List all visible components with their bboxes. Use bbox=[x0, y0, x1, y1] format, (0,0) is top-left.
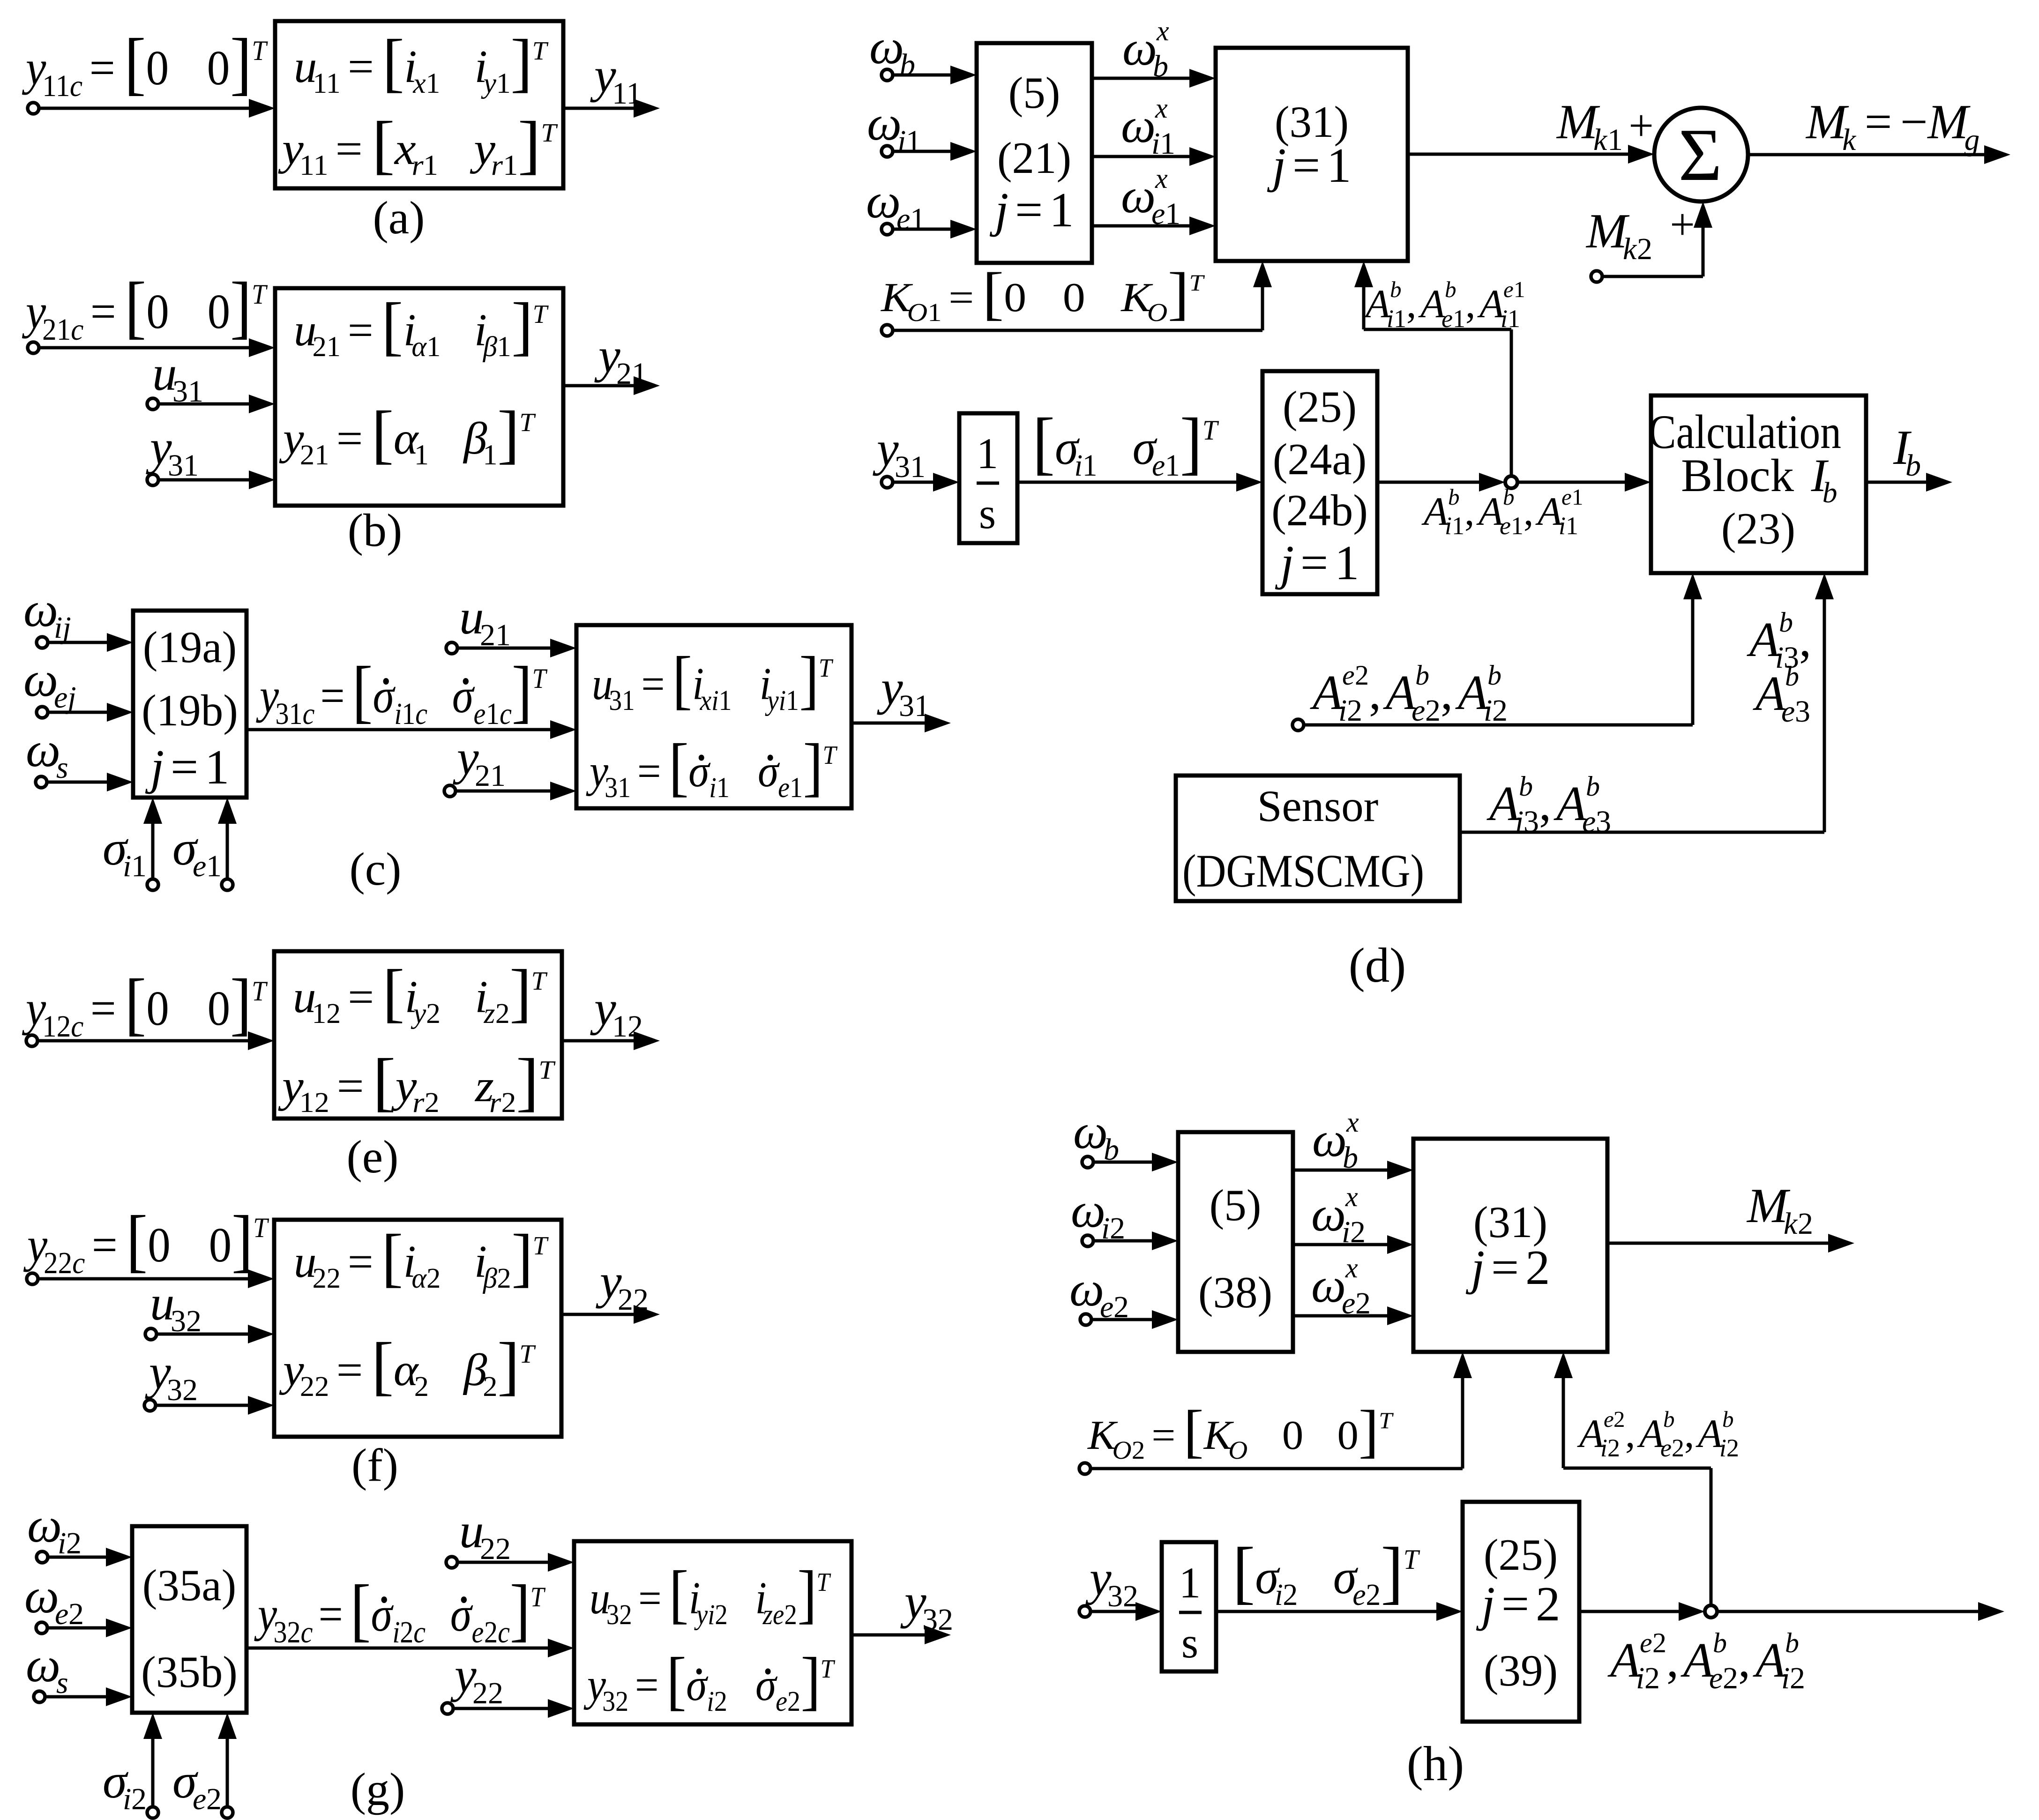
svg-text:e: e bbox=[55, 1597, 68, 1631]
caption (c) bbox=[350, 843, 402, 895]
svg-text:,: , bbox=[1625, 1411, 1636, 1456]
svg-text:1: 1 bbox=[1165, 448, 1180, 483]
wire y32 input bbox=[156, 1396, 274, 1415]
block (a) line2 y11 bbox=[278, 108, 558, 181]
svg-text:i: i bbox=[392, 1616, 400, 1649]
svg-text:11: 11 bbox=[313, 67, 340, 99]
svg-text:(d): (d) bbox=[1349, 938, 1406, 992]
label A e3 part2 bbox=[1753, 661, 1810, 729]
svg-text:12: 12 bbox=[312, 998, 341, 1029]
svg-text:1: 1 bbox=[1452, 512, 1464, 540]
terminal sigma i2 bbox=[147, 1807, 158, 1818]
svg-text:2: 2 bbox=[484, 1616, 498, 1649]
label A i1 e1 top bbox=[1363, 276, 1525, 333]
block (c) text 19a bbox=[143, 622, 237, 672]
terminal we2 h bbox=[1080, 1314, 1091, 1325]
block (d) text 25 bbox=[1283, 382, 1357, 432]
wire wej input bbox=[48, 703, 133, 722]
label wi2 bbox=[27, 1498, 82, 1560]
terminal y31 input b bbox=[147, 474, 158, 485]
svg-text:σ: σ bbox=[686, 1660, 709, 1710]
wire sensor out bbox=[1460, 831, 1824, 834]
svg-text:=: = bbox=[348, 41, 374, 92]
integrator bar bbox=[977, 482, 999, 485]
svg-text:k: k bbox=[1623, 232, 1637, 266]
svg-text:i: i bbox=[394, 697, 402, 731]
svg-text:[: [ bbox=[1232, 1533, 1255, 1611]
svg-text:=: = bbox=[336, 413, 363, 464]
svg-text:c: c bbox=[301, 1616, 313, 1649]
wire y31 output bbox=[851, 714, 951, 732]
svg-text:(19b): (19b) bbox=[142, 686, 238, 735]
svg-text:31: 31 bbox=[168, 448, 199, 483]
svg-text:i: i bbox=[1484, 694, 1492, 728]
svg-text:r: r bbox=[412, 1086, 425, 1118]
svg-text:,: , bbox=[1464, 489, 1475, 534]
svg-text:32: 32 bbox=[167, 1373, 198, 1407]
svg-text:k: k bbox=[1842, 123, 1857, 157]
caption (b) bbox=[348, 504, 403, 556]
svg-text:1: 1 bbox=[1049, 182, 1074, 237]
terminal sigma e1 bbox=[222, 879, 233, 890]
wire Mk2 out bbox=[1607, 1234, 1854, 1253]
integrator 1 h bbox=[1179, 1559, 1201, 1607]
wire y22 output bbox=[561, 1305, 660, 1324]
svg-text:2: 2 bbox=[1525, 1240, 1550, 1295]
label y31 in bbox=[146, 420, 199, 483]
wire A2 up bbox=[1683, 573, 1702, 725]
wire y32c bbox=[246, 1639, 574, 1657]
label u31 bbox=[152, 346, 203, 409]
svg-text:=: = bbox=[1300, 535, 1328, 590]
label Mk2 out bbox=[1746, 1178, 1813, 1241]
label A i3 part1 bbox=[1747, 607, 1811, 675]
svg-text:2: 2 bbox=[715, 1598, 727, 1630]
integrator block bbox=[959, 413, 1017, 543]
label ws bbox=[26, 722, 68, 785]
wire KO2 h bbox=[1090, 1467, 1463, 1470]
svg-text:ω: ω bbox=[1069, 1261, 1104, 1316]
block (a) controller bbox=[275, 21, 563, 188]
svg-text:i: i bbox=[1151, 127, 1160, 161]
block (b) controller bbox=[275, 288, 563, 506]
label Mk=-Mg bbox=[1805, 95, 1979, 157]
svg-text:e: e bbox=[1500, 512, 1511, 540]
svg-text:O: O bbox=[1147, 298, 1167, 327]
svg-text:Sensor: Sensor bbox=[1257, 781, 1379, 831]
svg-text:[: [ bbox=[382, 957, 404, 1029]
svg-text:2: 2 bbox=[495, 998, 510, 1029]
terminal u21 in bbox=[446, 642, 457, 654]
wire A vert bbox=[1510, 329, 1513, 482]
svg-text:(35a): (35a) bbox=[142, 1560, 236, 1610]
svg-text:i: i bbox=[1387, 305, 1394, 333]
svg-text:31: 31 bbox=[605, 772, 631, 804]
wire A horiz bbox=[1364, 328, 1511, 331]
label wbx bbox=[1122, 15, 1169, 83]
svg-text:ej: ej bbox=[54, 680, 76, 715]
svg-text:(19a): (19a) bbox=[143, 622, 237, 672]
svg-text:T: T bbox=[1202, 415, 1219, 446]
svg-text:(24b): (24b) bbox=[1271, 485, 1368, 535]
integrator block h bbox=[1162, 1542, 1216, 1671]
svg-text:2: 2 bbox=[1652, 1627, 1666, 1658]
block (c) text 19b bbox=[142, 686, 238, 735]
svg-text:T: T bbox=[531, 967, 548, 996]
svg-text:b: b bbox=[1487, 660, 1501, 691]
svg-text:r: r bbox=[489, 1086, 501, 1118]
svg-text:r: r bbox=[412, 149, 424, 181]
svg-text:c: c bbox=[303, 697, 315, 731]
wire y22 input g bbox=[453, 1699, 574, 1718]
label Ib bbox=[1893, 420, 1921, 483]
svg-text:0: 0 bbox=[208, 284, 231, 339]
svg-text:1: 1 bbox=[717, 772, 730, 804]
svg-text:=: = bbox=[949, 275, 974, 320]
wire wij input bbox=[48, 633, 133, 652]
svg-text:1: 1 bbox=[1453, 305, 1465, 333]
svg-text:1: 1 bbox=[1607, 123, 1623, 157]
wire sigma e1 up bbox=[218, 798, 237, 879]
svg-text:s: s bbox=[1181, 1619, 1198, 1667]
svg-text:22: 22 bbox=[618, 1283, 649, 1317]
label y12c bbox=[22, 965, 268, 1043]
svg-text:2: 2 bbox=[425, 1086, 440, 1118]
wire Mk1 bbox=[1408, 145, 1654, 164]
wire we1 input bbox=[893, 220, 977, 239]
svg-text:ω: ω bbox=[1311, 1186, 1346, 1241]
svg-text:T: T bbox=[1189, 270, 1205, 296]
svg-text:1: 1 bbox=[927, 298, 941, 327]
terminal y12c bbox=[26, 1035, 37, 1046]
label y11 bbox=[590, 48, 642, 111]
svg-text:,: , bbox=[1465, 281, 1476, 326]
svg-text:e: e bbox=[1151, 197, 1165, 231]
svg-text:[: [ bbox=[381, 290, 403, 362]
svg-text:21: 21 bbox=[480, 618, 511, 652]
block (c) line2 y31 bbox=[586, 731, 838, 804]
svg-text:σ: σ bbox=[371, 1588, 394, 1642]
svg-text:=: = bbox=[337, 1060, 364, 1111]
svg-text:[: [ bbox=[1183, 1398, 1203, 1464]
wire A up into 31 h bbox=[1554, 1352, 1573, 1468]
svg-text:T: T bbox=[533, 300, 549, 329]
block (d) text j=1 bbox=[989, 182, 1074, 237]
plus sign top bbox=[1628, 101, 1654, 150]
svg-text:x: x bbox=[1346, 1107, 1359, 1138]
svg-text:ω: ω bbox=[1073, 1104, 1108, 1159]
svg-text:(e): (e) bbox=[347, 1131, 399, 1183]
label sigma i1 bbox=[103, 820, 147, 883]
wire y31 to integrator bbox=[893, 473, 959, 492]
svg-text:2: 2 bbox=[414, 1371, 429, 1402]
svg-text:,: , bbox=[1666, 1633, 1679, 1687]
caption (f) bbox=[351, 1439, 398, 1491]
wire A vert h bbox=[1710, 1468, 1713, 1606]
svg-text:2: 2 bbox=[400, 1616, 413, 1649]
svg-text:]: ] bbox=[230, 965, 252, 1043]
wire y21c input bbox=[39, 338, 275, 357]
label we1x bbox=[1121, 163, 1180, 231]
svg-text:i: i bbox=[709, 772, 717, 804]
svg-text:2: 2 bbox=[206, 1782, 222, 1816]
svg-text:2: 2 bbox=[131, 1782, 147, 1816]
svg-text:22: 22 bbox=[472, 1676, 503, 1710]
block (d) text 24a bbox=[1273, 434, 1367, 484]
wire wi2 input bbox=[48, 1548, 132, 1566]
svg-text:]: ] bbox=[232, 1201, 253, 1279]
svg-text:ω: ω bbox=[1121, 98, 1156, 153]
svg-text:[: [ bbox=[350, 1570, 371, 1648]
svg-text:1: 1 bbox=[1160, 127, 1175, 161]
svg-text:i: i bbox=[1074, 448, 1083, 483]
svg-text:=: = bbox=[1501, 1576, 1529, 1631]
label y21c = [0 0]T bbox=[22, 268, 268, 346]
svg-text:(b): (b) bbox=[348, 504, 403, 556]
wire A horiz h bbox=[1563, 1467, 1711, 1470]
label KO1 bbox=[880, 260, 1205, 327]
svg-text:ze: ze bbox=[762, 1598, 784, 1630]
svg-text:1: 1 bbox=[977, 430, 999, 478]
label y21 bbox=[594, 328, 647, 391]
svg-text:e: e bbox=[1604, 1406, 1614, 1432]
wire we2 input bbox=[47, 1619, 132, 1637]
svg-text:(38): (38) bbox=[1198, 1268, 1272, 1317]
svg-text:T: T bbox=[819, 653, 833, 683]
svg-text:=: = bbox=[92, 1218, 118, 1272]
wire u22 input bbox=[457, 1553, 574, 1572]
svg-text:O: O bbox=[1228, 1436, 1247, 1465]
svg-text:Block: Block bbox=[1681, 449, 1794, 501]
svg-text:[: [ bbox=[669, 1557, 689, 1630]
svg-text:]: ] bbox=[516, 1045, 539, 1118]
svg-text:b: b bbox=[1503, 484, 1515, 510]
wire y22c input bbox=[38, 1269, 274, 1288]
svg-text:y: y bbox=[411, 998, 426, 1029]
svg-text:b: b bbox=[900, 48, 915, 82]
svg-text:,: , bbox=[1799, 612, 1811, 667]
svg-text:T: T bbox=[532, 664, 548, 694]
block (d) eq31 bbox=[1216, 48, 1408, 261]
block (c) text j=1 bbox=[145, 739, 230, 794]
svg-text:]: ] bbox=[509, 957, 531, 1029]
svg-text:e: e bbox=[1503, 276, 1514, 302]
svg-text:[: [ bbox=[669, 731, 689, 803]
terminal u22 in bbox=[446, 1557, 457, 1568]
wire wb input bbox=[893, 66, 977, 84]
svg-text:=: = bbox=[1292, 138, 1320, 193]
svg-text:xi: xi bbox=[700, 685, 719, 716]
svg-text:=: = bbox=[336, 123, 363, 174]
svg-text:]: ] bbox=[230, 24, 252, 102]
svg-text:]: ] bbox=[1180, 404, 1202, 482]
block (h) text 5 bbox=[1210, 1180, 1262, 1230]
svg-text:[: [ bbox=[352, 652, 373, 730]
svg-text:e: e bbox=[1352, 1578, 1366, 1612]
terminal y21 in bbox=[444, 785, 456, 797]
block (c) gimbal controller bbox=[576, 625, 851, 808]
svg-text:,: , bbox=[1684, 1411, 1695, 1456]
terminal wi2 h bbox=[1082, 1235, 1093, 1246]
svg-text:2: 2 bbox=[426, 998, 441, 1029]
svg-text:2: 2 bbox=[1425, 694, 1441, 728]
svg-text:,: , bbox=[1369, 665, 1381, 720]
svg-text:x: x bbox=[412, 67, 426, 99]
svg-text:i: i bbox=[1600, 1434, 1607, 1462]
wire y12 output bbox=[562, 1031, 660, 1050]
label A bottom h bbox=[1607, 1627, 1805, 1695]
wire node to calc bbox=[1517, 473, 1651, 492]
svg-text:T: T bbox=[817, 1568, 831, 1597]
svg-text:]: ] bbox=[512, 652, 532, 730]
svg-text:31: 31 bbox=[895, 450, 926, 484]
caption (d) bbox=[1349, 938, 1406, 992]
calc text 1 bbox=[1648, 405, 1841, 458]
svg-text:c: c bbox=[70, 68, 82, 103]
wire to node bbox=[1377, 473, 1505, 492]
label Mk1 bbox=[1556, 94, 1623, 157]
label sigma i2 bbox=[103, 1753, 147, 1816]
label y32c equation bbox=[254, 1570, 546, 1649]
terminal u32 bbox=[145, 1328, 157, 1340]
plus sign bottom bbox=[1670, 200, 1695, 249]
svg-text:O: O bbox=[1113, 1436, 1132, 1465]
terminal y22c bbox=[27, 1273, 38, 1284]
terminal wi2 bbox=[37, 1551, 48, 1563]
svg-text:32: 32 bbox=[922, 1603, 953, 1637]
svg-text:(DGMSCMG): (DGMSCMG) bbox=[1182, 845, 1424, 897]
svg-text:]: ] bbox=[1381, 1533, 1403, 1611]
svg-text:2: 2 bbox=[1110, 1211, 1125, 1246]
svg-text:ω: ω bbox=[867, 96, 902, 150]
label wi2 h bbox=[1071, 1183, 1125, 1246]
svg-text:2: 2 bbox=[714, 1686, 727, 1717]
wire we2x h bbox=[1293, 1306, 1413, 1325]
svg-text:]: ] bbox=[797, 1557, 817, 1630]
svg-text:b: b bbox=[1343, 1141, 1358, 1175]
svg-text:(21): (21) bbox=[997, 133, 1071, 183]
svg-text:2: 2 bbox=[787, 1686, 800, 1717]
svg-text:2: 2 bbox=[1283, 1578, 1298, 1612]
svg-text:=: = bbox=[635, 1660, 659, 1710]
svg-text:e: e bbox=[1660, 1434, 1672, 1462]
svg-text:31: 31 bbox=[609, 685, 635, 716]
svg-text:21: 21 bbox=[313, 331, 341, 363]
wire A2 h bbox=[1304, 724, 1693, 727]
terminal sigma i1 bbox=[147, 879, 158, 890]
svg-text:11: 11 bbox=[42, 68, 70, 103]
svg-text:=: = bbox=[90, 41, 115, 95]
svg-text:e: e bbox=[1152, 448, 1165, 483]
caption (e) bbox=[347, 1131, 399, 1183]
label KO2 bbox=[1087, 1398, 1394, 1465]
svg-text:ω: ω bbox=[27, 1498, 62, 1552]
wire KO1 up bbox=[1253, 261, 1272, 330]
block (c) steering law bbox=[133, 611, 246, 798]
wire we1x bbox=[1092, 216, 1216, 235]
terminal A2 bbox=[1292, 719, 1304, 731]
svg-text:x: x bbox=[1345, 1253, 1358, 1283]
svg-text:[: [ bbox=[373, 1045, 396, 1118]
svg-text:T: T bbox=[253, 1212, 269, 1243]
svg-text:x: x bbox=[1155, 93, 1168, 124]
svg-text:,: , bbox=[1738, 1633, 1750, 1687]
svg-text:i: i bbox=[1781, 1661, 1790, 1695]
label y11c = [0 0]T bbox=[22, 24, 268, 103]
block (b) line1 u21 bbox=[294, 290, 549, 363]
terminal KO1 bbox=[881, 325, 893, 336]
wire sigma i2 up bbox=[143, 1713, 162, 1807]
svg-text:]: ] bbox=[510, 1570, 530, 1648]
svg-text:T: T bbox=[1379, 1408, 1394, 1433]
svg-text:i: i bbox=[1342, 1215, 1350, 1249]
svg-text:T: T bbox=[532, 37, 549, 66]
svg-text:2: 2 bbox=[497, 1263, 511, 1294]
svg-text:[: [ bbox=[125, 268, 146, 346]
svg-text:[: [ bbox=[372, 108, 395, 181]
svg-text:i: i bbox=[1275, 1578, 1283, 1612]
label we2 h bbox=[1069, 1261, 1129, 1324]
svg-text:b: b bbox=[1445, 276, 1456, 302]
svg-text:T: T bbox=[823, 740, 838, 770]
svg-text:T: T bbox=[519, 408, 536, 437]
wire sigma vec bbox=[1017, 473, 1262, 492]
svg-text:ω: ω bbox=[1122, 21, 1157, 75]
label wi1 bbox=[867, 96, 921, 158]
svg-text:32: 32 bbox=[606, 1598, 632, 1630]
svg-text:b: b bbox=[1785, 661, 1799, 692]
svg-text:32: 32 bbox=[171, 1304, 202, 1338]
svg-text:c: c bbox=[71, 1009, 83, 1044]
svg-text:=: = bbox=[637, 746, 661, 797]
block (d) text j=1 b bbox=[1267, 138, 1352, 193]
terminal Mk2 bbox=[1591, 271, 1602, 282]
label y22c bbox=[23, 1201, 269, 1280]
terminal wej bbox=[37, 707, 48, 718]
svg-text:,: , bbox=[1406, 281, 1417, 326]
svg-text:=: = bbox=[348, 305, 373, 356]
svg-text:0: 0 bbox=[209, 1218, 232, 1272]
wire Mk2 up bbox=[1694, 201, 1712, 276]
svg-text:,: , bbox=[1524, 489, 1534, 534]
svg-text:31: 31 bbox=[275, 697, 302, 731]
block (b) line2 y21 bbox=[279, 398, 536, 471]
svg-text:1: 1 bbox=[786, 685, 799, 716]
label wb h bbox=[1073, 1104, 1119, 1167]
wire u21 input bbox=[457, 639, 576, 657]
svg-text:32: 32 bbox=[1107, 1579, 1138, 1613]
block (h) text 25 bbox=[1484, 1530, 1558, 1580]
svg-text:12: 12 bbox=[612, 1009, 643, 1044]
wire A3 up bbox=[1815, 573, 1834, 832]
svg-text:2: 2 bbox=[1613, 1406, 1625, 1432]
svg-text:2: 2 bbox=[501, 1086, 516, 1118]
svg-text:i: i bbox=[1559, 512, 1566, 540]
svg-text:0: 0 bbox=[148, 1218, 171, 1272]
block (g) line1 bbox=[590, 1557, 831, 1631]
integrator s h bbox=[1181, 1619, 1198, 1667]
svg-text:11: 11 bbox=[299, 149, 329, 181]
svg-text:=: = bbox=[1491, 1240, 1519, 1295]
svg-text:e: e bbox=[193, 1782, 206, 1816]
svg-text:ω: ω bbox=[1311, 1258, 1346, 1313]
label we2x h bbox=[1311, 1253, 1371, 1320]
svg-text:22: 22 bbox=[44, 1246, 72, 1280]
svg-text:k: k bbox=[1593, 123, 1608, 157]
svg-text:1: 1 bbox=[402, 697, 415, 731]
svg-text:ω: ω bbox=[1312, 1112, 1347, 1167]
svg-text:T: T bbox=[1404, 1544, 1420, 1575]
